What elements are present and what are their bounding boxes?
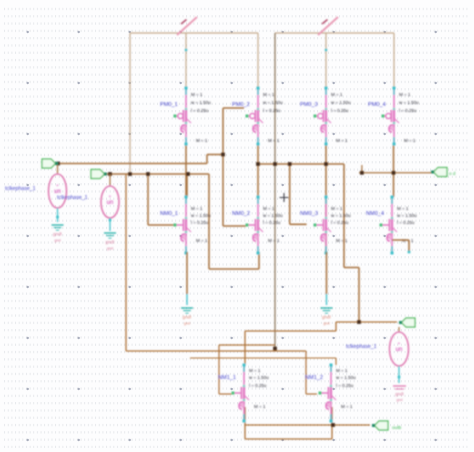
- svg-text:M = 1: M = 1: [268, 238, 280, 243]
- svg-text:w = 1.50u: w = 1.50u: [331, 100, 351, 105]
- svg-text:M = 1: M = 1: [263, 206, 275, 211]
- svg-text:w = 1.50u: w = 1.50u: [331, 213, 351, 218]
- svg-text:M = 1: M = 1: [404, 138, 416, 143]
- svg-text:M = 1: M = 1: [249, 368, 261, 373]
- svg-text:NM0_4: NM0_4: [366, 211, 384, 217]
- svg-text:M = 1: M = 1: [196, 138, 208, 143]
- svg-text:l = 0.25u: l = 0.25u: [263, 108, 281, 113]
- svg-text:w = 1.50u: w = 1.50u: [191, 100, 211, 105]
- svg-text:M = 1: M = 1: [336, 138, 348, 143]
- svg-text:un: un: [396, 347, 403, 353]
- svg-text:M = 1: M = 1: [331, 206, 343, 211]
- svg-text:M = 1: M = 1: [336, 368, 348, 373]
- svg-text:+: +: [398, 341, 401, 346]
- svg-text:PM0_1: PM0_1: [160, 102, 178, 108]
- svg-text:gnd!: gnd!: [53, 232, 62, 237]
- svg-text:l = 0.25u: l = 0.25u: [331, 108, 349, 113]
- svg-text:NM1_1: NM1_1: [218, 375, 236, 381]
- svg-text:tclkephase_1: tclkephase_1: [5, 186, 36, 192]
- svg-text:tclkephase_1: tclkephase_1: [346, 344, 377, 350]
- svg-text:gnd: gnd: [323, 322, 329, 326]
- svg-text:o d: o d: [449, 171, 456, 176]
- svg-text:NM0_2: NM0_2: [232, 211, 250, 217]
- svg-text:M = 1: M = 1: [191, 92, 203, 97]
- svg-text:w = 1.50u: w = 1.50u: [249, 375, 269, 380]
- svg-text:M = 1: M = 1: [341, 404, 353, 409]
- svg-text:M = 1: M = 1: [268, 138, 280, 143]
- svg-text:PM0_4: PM0_4: [368, 102, 386, 108]
- svg-text:gnd: gnd: [107, 247, 113, 251]
- svg-text:un: un: [107, 200, 114, 206]
- svg-text:w = 1.50u: w = 1.50u: [263, 100, 283, 105]
- svg-text:gnd: gnd: [54, 239, 60, 243]
- svg-text:l = 0.25u: l = 0.25u: [249, 383, 267, 388]
- svg-text:M = 1: M = 1: [331, 92, 343, 97]
- svg-text:+: +: [56, 183, 59, 188]
- svg-text:l = 0.25u: l = 0.25u: [336, 383, 354, 388]
- svg-text:tclkephase_1: tclkephase_1: [57, 195, 88, 201]
- svg-text:l = 0.25u: l = 0.25u: [191, 220, 209, 225]
- svg-text:gnd!: gnd!: [395, 392, 404, 397]
- svg-text:NM1_2: NM1_2: [305, 375, 323, 381]
- svg-text:M = 1: M = 1: [263, 92, 275, 97]
- svg-text:outb: outb: [392, 425, 402, 431]
- svg-text:l = 0.25u: l = 0.25u: [331, 220, 349, 225]
- svg-text:w = 1.50u: w = 1.50u: [336, 375, 356, 380]
- svg-text:gnd: gnd: [184, 322, 190, 326]
- svg-text:M = 1: M = 1: [191, 206, 203, 211]
- svg-text:gnd: gnd: [397, 398, 403, 402]
- svg-text:M = 1: M = 1: [336, 238, 348, 243]
- svg-text:PM0_3: PM0_3: [300, 102, 318, 108]
- svg-text:M = 1: M = 1: [399, 92, 411, 97]
- svg-text:M = 1: M = 1: [397, 206, 409, 211]
- svg-text:M = 1: M = 1: [254, 404, 266, 409]
- svg-text:w = 1.50u: w = 1.50u: [399, 100, 419, 105]
- svg-text:M = 1: M = 1: [196, 238, 208, 243]
- svg-text:l = 0.25u: l = 0.25u: [399, 108, 417, 113]
- svg-text:NM0_3: NM0_3: [300, 211, 318, 217]
- svg-text:w = 1.50u: w = 1.50u: [191, 213, 211, 218]
- svg-text:gnd!: gnd!: [106, 240, 115, 245]
- svg-text:+: +: [109, 194, 112, 199]
- svg-text:w = 1.50u: w = 1.50u: [263, 213, 283, 218]
- svg-text:gnd!: gnd!: [322, 315, 331, 320]
- svg-text:l = 0.25u: l = 0.25u: [263, 220, 281, 225]
- svg-text:gnd!: gnd!: [183, 315, 192, 320]
- svg-text:PM0_2: PM0_2: [232, 102, 250, 108]
- svg-text:NM0_1: NM0_1: [160, 211, 178, 217]
- svg-text:l = 0.25u: l = 0.25u: [397, 220, 415, 225]
- svg-text:w = 1.50u: w = 1.50u: [397, 213, 417, 218]
- svg-text:l = 0.25u: l = 0.25u: [191, 108, 209, 113]
